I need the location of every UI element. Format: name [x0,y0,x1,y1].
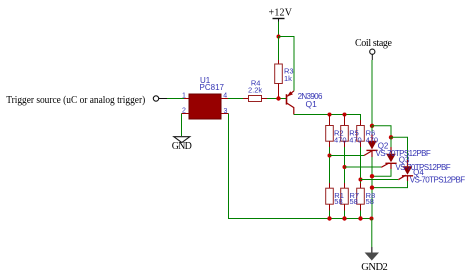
terminal: trigger source [153,96,167,101]
svg-text:Q1: Q1 [306,99,318,109]
wire: R6 bottom to R8 top [360,147,362,183]
wire: R7 bottom to rail [344,211,346,219]
wire: Q3 cathode to common [372,169,391,176]
ground GND symbol [174,137,190,143]
wire: gate Q2 [330,155,365,157]
wire: R5 bottom to R7 top [344,147,346,183]
terminal: coil stage [370,49,375,60]
resistor R3 [275,60,283,98]
resistor R7 [341,183,349,211]
svg-text:PC817: PC817 [200,83,225,92]
pin: U1 pin4 [221,93,228,100]
optocoupler U1 body [189,94,221,119]
svg-text:1: 1 [182,93,186,100]
resistor R5 [341,115,349,148]
junction: gate node Q3 [343,165,347,169]
thyristor Q2 [364,134,378,157]
pin: U1 pin3 [221,108,229,115]
junction: anode node Q3 [389,135,393,139]
svg-text:58: 58 [350,197,358,206]
wire: +12V down to junction [278,22,280,37]
wire: Q4 cathode to common [372,181,408,188]
resistor R8 [357,183,365,211]
wire: anode branch to Q3 [372,126,391,138]
svg-text:VS-70TPS12PBF: VS-70TPS12PBF [410,175,465,184]
junction: rail at R8 [358,216,362,220]
svg-text:GND: GND [172,141,192,152]
svg-text:GND2: GND2 [361,262,388,273]
junction: Q4 cathode node [370,185,374,189]
svg-text:Coil stage: Coil stage [355,38,393,49]
wire: Q2 anode stem [371,126,373,141]
junction: rail at R2 [328,113,332,117]
resistor R6 [357,120,365,147]
wire: anode branch to Q4 [391,137,408,166]
wire: U1 pin2 to GND [181,114,183,137]
wire: Q2 cathode down to rail [371,157,373,219]
wire: trigger to U1 pin1 [167,98,184,100]
wire: +12V node to Q1 emitter [279,37,295,91]
svg-text:470: 470 [366,135,379,144]
junction: Q3 cathode node [370,174,374,178]
wire: +12V node to R3 [278,37,280,61]
junction: gate node Q2 [328,154,332,158]
pin: U1 pin2 [182,108,190,115]
junction: rail at R7 [342,216,346,220]
wire: U1 pin4 to R4 [228,98,243,100]
wire: U1 pin3 down to bottom rail [229,114,330,219]
junction: +12V node [277,35,281,39]
svg-text:1k: 1k [284,74,292,83]
wire: coil stage down to Q2 anode [371,60,373,126]
wire: R8 bottom to rail [360,211,362,219]
resistor R4 [243,96,267,102]
thyristor Q4 [398,160,413,181]
svg-text:58: 58 [334,197,342,206]
power +12V bar symbol [273,19,285,22]
svg-text:4: 4 [223,93,227,100]
resistor R1 [326,183,334,211]
resistor R2 [326,115,334,148]
wire: bottom rail right section [330,218,372,220]
junction: rail at GND2 [370,217,374,221]
svg-text:470: 470 [334,135,347,144]
transistor Q1 [287,91,295,115]
svg-text:58: 58 [366,197,374,206]
wire: R1 bottom to rail [329,211,331,219]
thyristor Q3 [381,147,396,169]
wire: Q1 collector rail to R2 R5 R6 [294,115,361,121]
svg-text:2.2k: 2.2k [248,86,262,95]
junction: rail at R1 [327,216,331,220]
ground GND2 symbol [365,247,379,261]
wire: R2 bottom to R1 top [329,147,331,183]
wire: Q3 anode stem [390,137,392,153]
svg-text:Trigger source (uC or analog t: Trigger source (uC or analog trigger) [6,95,145,106]
svg-text:470: 470 [349,135,362,144]
svg-text:2: 2 [182,108,186,115]
junction: anode node Q2 [370,124,374,128]
wire: GND2 stem [371,219,373,248]
wire: R4 to base node [267,98,287,100]
wire: gate Q4 [361,179,399,181]
svg-text:3: 3 [224,108,228,115]
svg-text:+12V: +12V [269,8,293,19]
junction: gate node Q4 [359,178,363,182]
junction: rail at R5 [343,113,347,117]
wire: gate Q3 [345,166,382,168]
junction: Q1 base node [276,96,280,100]
pin: U1 pin1 [182,93,189,100]
